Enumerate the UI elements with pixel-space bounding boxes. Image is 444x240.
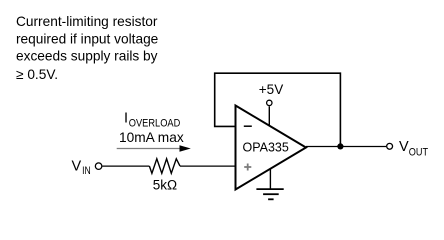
svg-text:V: V: [399, 139, 409, 155]
ground: [256, 169, 283, 200]
svg-text:OUT: OUT: [409, 147, 429, 159]
svg-text:5kΩ: 5kΩ: [153, 178, 177, 193]
note text block: [16, 14, 158, 82]
svg-text:V: V: [72, 158, 82, 174]
wire op-amp output to VOUT: [306, 146, 386, 148]
op-amp U1 OPA335: [236, 106, 307, 190]
svg-text:IN: IN: [82, 165, 91, 177]
terminal circle VIN: [95, 163, 102, 170]
terminal circle +5V: [267, 100, 272, 105]
resistor R1 5kOhm: [149, 159, 180, 174]
junction node: [337, 143, 343, 149]
current arrow: [117, 145, 191, 152]
node VOUT label: [399, 139, 428, 159]
svg-text:+5V: +5V: [259, 82, 283, 97]
svg-text:OPA335: OPA335: [243, 141, 289, 155]
wire +5V to op-amp top: [268, 106, 270, 126]
svg-text:required if input voltage: required if input voltage: [16, 32, 158, 47]
node VIN label: [72, 158, 91, 177]
svg-text:10mA max: 10mA max: [119, 130, 184, 145]
svg-text:Current-limiting resistor: Current-limiting resistor: [16, 14, 158, 29]
wire VIN to R1: [102, 165, 149, 167]
wire R1 to op-amp + input: [180, 165, 236, 167]
svg-text:exceeds supply rails by: exceeds supply rails by: [16, 48, 158, 63]
terminal circle VOUT: [387, 143, 393, 149]
feedback wire loop: [215, 73, 341, 146]
svg-text:OVERLOAD: OVERLOAD: [129, 118, 181, 130]
svg-text:I: I: [124, 110, 128, 126]
svg-text:≥ 0.5V.: ≥ 0.5V.: [16, 67, 58, 82]
current label I_OVERLOAD: [119, 110, 184, 145]
